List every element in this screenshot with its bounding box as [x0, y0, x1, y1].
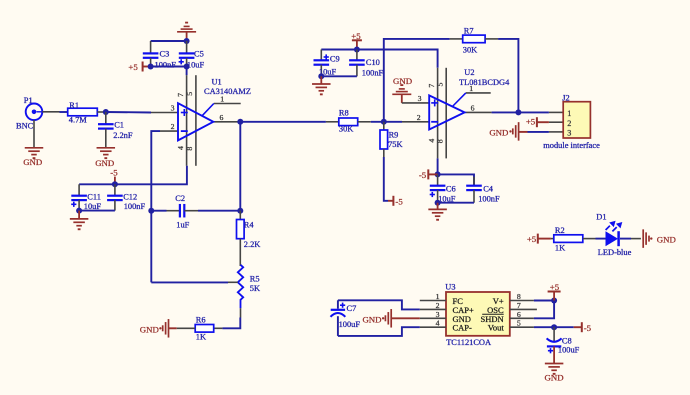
svg-text:4: 4 [436, 319, 440, 328]
svg-text:R7: R7 [464, 26, 474, 35]
wire [534, 298, 557, 304]
svg-text:2: 2 [567, 119, 571, 128]
LED D1 [596, 213, 631, 258]
svg-text:GND: GND [393, 76, 412, 86]
svg-text:4: 4 [427, 139, 436, 143]
svg-text:C1: C1 [114, 121, 124, 130]
ground [140, 319, 177, 338]
wire [534, 324, 557, 330]
wire [79, 166, 187, 188]
wire [384, 157, 388, 201]
connector J2 [543, 93, 600, 150]
svg-text:R5: R5 [250, 275, 260, 284]
svg-text:GND: GND [489, 127, 508, 137]
ground [489, 122, 549, 140]
svg-text:30K: 30K [339, 125, 353, 134]
ground [177, 22, 196, 41]
svg-text:1: 1 [436, 292, 440, 301]
ground [23, 148, 43, 167]
svg-text:8: 8 [436, 139, 445, 143]
svg-text:4.7M: 4.7M [69, 116, 87, 125]
connector P1 BNC [16, 96, 60, 147]
svg-text:C3: C3 [160, 50, 170, 59]
resistor R6 [177, 316, 223, 342]
ground [428, 203, 447, 221]
resistor R5 [228, 265, 260, 318]
svg-text:BNC: BNC [16, 121, 34, 130]
svg-text:module interface: module interface [543, 141, 600, 150]
wire [435, 200, 474, 206]
resistor R4 [237, 211, 261, 266]
svg-text:+5: +5 [527, 234, 537, 244]
svg-text:P1: P1 [24, 96, 33, 105]
svg-text:C2: C2 [175, 194, 185, 203]
power +5 [526, 117, 549, 128]
svg-text:100nF: 100nF [124, 202, 146, 211]
wire [492, 109, 549, 115]
svg-text:100nF: 100nF [362, 69, 384, 78]
svg-text:100uF: 100uF [558, 346, 580, 355]
svg-text:U1: U1 [212, 77, 222, 86]
wire [103, 109, 151, 115]
svg-text:75K: 75K [388, 140, 402, 149]
wire [438, 174, 474, 185]
resistor R2 [551, 226, 606, 252]
svg-text:CA3140AMZ: CA3140AMZ [204, 87, 251, 96]
svg-text:R6: R6 [196, 316, 206, 325]
svg-text:2: 2 [417, 113, 421, 122]
wire [498, 39, 518, 113]
svg-text:TC1121COA: TC1121COA [446, 338, 491, 347]
op-amp U1 [151, 75, 251, 166]
ground [362, 309, 419, 328]
svg-text:-5: -5 [395, 196, 403, 206]
svg-text:6: 6 [220, 113, 224, 122]
capacitor C9 [314, 50, 340, 77]
IC U3 [420, 283, 537, 347]
svg-text:3: 3 [436, 310, 440, 319]
wire [631, 238, 641, 240]
power -5 [554, 322, 592, 333]
svg-text:D1: D1 [596, 213, 606, 222]
svg-text:30K: 30K [463, 46, 477, 55]
svg-text:10uF: 10uF [84, 202, 102, 211]
wire [76, 208, 115, 214]
svg-text:U3: U3 [445, 283, 455, 292]
svg-text:GND: GND [362, 314, 381, 324]
svg-text:1: 1 [567, 109, 571, 118]
svg-text:+5: +5 [128, 62, 138, 72]
svg-text:+5: +5 [550, 282, 560, 292]
svg-text:U2: U2 [464, 68, 474, 77]
capacitor C6 [430, 174, 456, 203]
capacitor C11 [71, 184, 101, 211]
svg-text:1K: 1K [196, 332, 206, 341]
power +5 [527, 234, 551, 245]
svg-text:R8: R8 [339, 108, 349, 117]
ground [545, 364, 564, 383]
svg-text:R9: R9 [389, 131, 399, 140]
power +5 [548, 282, 561, 301]
wire [148, 64, 190, 76]
svg-text:LED-blue: LED-blue [598, 248, 632, 257]
svg-text:R1: R1 [69, 101, 79, 110]
resistor R1 [60, 101, 106, 125]
power +5 [351, 31, 362, 49]
capacitor C1 [98, 112, 133, 147]
svg-text:7: 7 [427, 84, 436, 88]
svg-text:6: 6 [517, 310, 521, 319]
svg-text:C7: C7 [347, 304, 357, 313]
svg-text:+5: +5 [526, 117, 536, 127]
svg-text:4: 4 [176, 146, 185, 150]
wire [237, 119, 243, 211]
svg-text:R2: R2 [555, 226, 565, 235]
svg-text:C4: C4 [483, 184, 494, 193]
capacitor C12 [107, 184, 145, 211]
wire [151, 210, 166, 212]
power -5 [388, 196, 403, 207]
svg-text:5: 5 [436, 83, 445, 87]
svg-text:C6: C6 [446, 184, 456, 193]
svg-text:2: 2 [171, 122, 175, 131]
wire [148, 131, 160, 282]
svg-text:5: 5 [185, 92, 194, 96]
svg-text:1K: 1K [555, 244, 565, 253]
wire [151, 281, 228, 283]
svg-text:J2: J2 [562, 93, 569, 102]
wire [222, 318, 240, 329]
svg-text:C9: C9 [330, 55, 340, 64]
svg-text:C11: C11 [87, 193, 101, 202]
wire [198, 208, 243, 214]
svg-text:1uF: 1uF [176, 221, 189, 230]
wire [240, 121, 326, 123]
svg-text:C5: C5 [194, 50, 204, 59]
svg-text:7: 7 [176, 93, 185, 97]
svg-text:2.2K: 2.2K [244, 240, 261, 249]
capacitor C7 [331, 300, 420, 336]
svg-text:C10: C10 [366, 58, 380, 67]
wire [371, 119, 402, 125]
svg-text:10uF: 10uF [187, 60, 205, 69]
svg-text:3: 3 [171, 104, 175, 113]
capacitor C2 [167, 194, 199, 229]
power +5 [128, 62, 148, 73]
svg-text:2.2nF: 2.2nF [113, 131, 133, 140]
svg-text:TL081BCDG4: TL081BCDG4 [459, 78, 510, 87]
svg-text:R4: R4 [244, 220, 255, 229]
power -5 [419, 169, 438, 180]
capacitor C3 [143, 41, 176, 69]
svg-text:5K: 5K [250, 284, 260, 293]
svg-text:100uF: 100uF [339, 320, 361, 329]
svg-text:100nF: 100nF [155, 60, 177, 69]
ground [392, 76, 412, 103]
svg-text:3: 3 [567, 129, 571, 138]
svg-text:C8: C8 [562, 336, 572, 345]
svg-text:CAP-: CAP- [453, 323, 473, 333]
resistor R7 [450, 26, 498, 54]
capacitor C8 [547, 327, 580, 363]
svg-text:GND: GND [657, 235, 676, 245]
svg-text:2: 2 [436, 301, 440, 310]
svg-text:8: 8 [185, 147, 194, 151]
svg-text:100nF: 100nF [478, 194, 500, 203]
ground [70, 211, 89, 231]
wire [435, 158, 441, 177]
svg-text:6: 6 [471, 104, 475, 113]
capacitor C5 [179, 41, 205, 69]
op-amp U2 [402, 68, 510, 159]
svg-text:C12: C12 [123, 193, 137, 202]
resistor R8 [326, 108, 371, 133]
svg-text:GND: GND [23, 157, 42, 167]
svg-text:-5: -5 [584, 323, 592, 333]
power -5 [110, 167, 118, 184]
wire [318, 73, 357, 79]
svg-text:7: 7 [517, 301, 521, 310]
capacitor C10 [349, 50, 383, 78]
resistor R9 [380, 122, 403, 157]
svg-text:Vout: Vout [488, 323, 505, 333]
svg-text:3: 3 [418, 94, 422, 103]
capacitor C4 [466, 177, 500, 204]
svg-text:-5: -5 [110, 167, 118, 177]
wire [321, 47, 437, 68]
wire [534, 301, 554, 319]
wire [384, 39, 450, 122]
svg-text:1: 1 [220, 95, 224, 104]
svg-text:-5: -5 [419, 170, 427, 180]
ground [643, 229, 676, 248]
svg-text:GND: GND [140, 324, 159, 334]
svg-text:5: 5 [517, 319, 521, 328]
ground [95, 148, 115, 168]
svg-text:GND: GND [545, 373, 564, 383]
wire [151, 38, 190, 44]
svg-text:8: 8 [517, 292, 521, 301]
ground [312, 76, 331, 95]
